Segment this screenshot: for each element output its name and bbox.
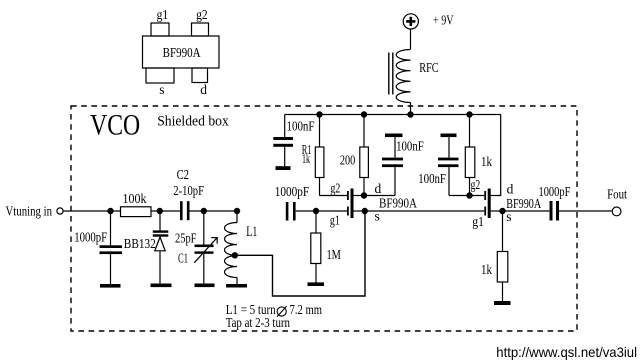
capacitor 1000pF (input shunt) (100, 211, 123, 284)
svg-text:RFC: RFC (419, 60, 438, 75)
svg-text:C1: C1 (178, 251, 188, 266)
svg-text:1k: 1k (481, 154, 492, 169)
node 100k/BB132 (157, 208, 163, 214)
resistor 200 (360, 115, 369, 196)
ground (T1 bypass, inverted) (385, 134, 403, 138)
node C2/C1 (201, 208, 207, 214)
node 1M/g1 (313, 208, 319, 214)
resistor 1M (311, 211, 321, 283)
ground (T2 g2 bypass, inverted) (441, 134, 457, 138)
ground (input 1000pF) (100, 284, 121, 288)
resistor 1k (T2 source) (497, 211, 508, 301)
wire RFC to rail (410, 103, 412, 115)
ground (L1) (226, 284, 247, 288)
node drain T1 (361, 192, 367, 198)
svg-text:BF990A: BF990A (163, 45, 201, 60)
RFC core line 1 (388, 53, 390, 95)
inductor RFC (396, 50, 410, 103)
shielded box dashed border (71, 106, 577, 331)
svg-text:Tap at 2-3 turn: Tap at 2-3 turn (226, 315, 291, 330)
wire supply to RFC (410, 29, 412, 49)
svg-text:s: s (375, 209, 380, 224)
capacitor 100nF (T1 drain bypass) (382, 137, 403, 195)
svg-text:25pF: 25pF (175, 231, 197, 246)
svg-text:7.2 mm: 7.2 mm (290, 302, 323, 317)
svg-text:http://www.qsl.net/va3iul: http://www.qsl.net/va3iul (496, 344, 637, 360)
capacitor 100nF (rail decoupling) (273, 115, 293, 167)
svg-text:100k: 100k (123, 191, 147, 206)
svg-text:BB132: BB132 (124, 236, 156, 251)
capacitor 1000pF (output series) (503, 201, 612, 221)
node input/1000pF (107, 208, 113, 214)
capacitor 100nF (T2 g2 bypass) (438, 137, 459, 195)
node source T2 (499, 208, 505, 214)
wire main line T1 source to T2 g1 (365, 210, 485, 212)
node g2 T2 (466, 192, 472, 198)
wire input (63, 210, 120, 212)
svg-text:+ 9V: + 9V (433, 12, 454, 27)
ground (T2 source 1k) (494, 301, 511, 305)
svg-text:Shielded box: Shielded box (157, 114, 229, 130)
resistor R1 1k (315, 115, 324, 196)
trimmer capacitor C1 25pF (194, 211, 217, 284)
svg-text:1000pF: 1000pF (539, 184, 571, 199)
svg-text:1k: 1k (302, 151, 310, 166)
svg-text:VCO: VCO (90, 110, 140, 142)
supply rail wire (285, 114, 501, 116)
transistor T1 BF990A (320, 189, 366, 219)
svg-text:1M: 1M (327, 247, 341, 262)
RFC core line 2 (392, 53, 394, 95)
svg-text:1000pF: 1000pF (74, 229, 107, 244)
node source T1 (362, 208, 368, 214)
svg-text:Vtuning in: Vtuning in (6, 203, 53, 218)
svg-text:100nF: 100nF (396, 139, 424, 154)
varactor BB132 (153, 211, 169, 284)
node tap of L1 (232, 252, 238, 258)
svg-text:BF990A: BF990A (379, 196, 417, 211)
package pin d (192, 68, 208, 83)
svg-text:d: d (375, 181, 382, 196)
ground (1M) (308, 282, 325, 286)
package pin g2 (192, 23, 209, 36)
ground (rail 100nF) (276, 166, 291, 170)
wire g2 node of T2 (449, 195, 484, 197)
svg-text:g2: g2 (471, 177, 481, 192)
supply terminal +9V (403, 14, 418, 29)
inductor L1 (224, 211, 237, 284)
capacitor 1000pF (series to T1 g1) (286, 202, 348, 221)
svg-text:g1: g1 (330, 213, 340, 228)
svg-text:g2: g2 (330, 181, 340, 196)
svg-text:1000pF: 1000pF (275, 184, 310, 199)
transistor T2 BF990A (484, 115, 502, 219)
package pin g1 (151, 23, 169, 36)
svg-text:s: s (506, 209, 511, 224)
package BF990A body (143, 36, 220, 68)
svg-text:s: s (159, 82, 164, 97)
diameter symbol (277, 306, 287, 316)
svg-text:g2: g2 (196, 7, 208, 22)
terminal Fout (612, 207, 621, 216)
node dot rail/1k (466, 111, 472, 117)
svg-text:d: d (507, 182, 514, 197)
resistor 100k (121, 207, 152, 217)
svg-text:BF990A: BF990A (506, 196, 541, 211)
svg-text:g1: g1 (472, 214, 484, 229)
capacitor C2 2-10pF series (180, 201, 237, 220)
svg-text:d: d (200, 82, 207, 97)
resistor 1k (T2 g2 bias) (465, 115, 475, 196)
package pin s (146, 68, 174, 83)
ground (C1) (195, 284, 215, 288)
svg-text:g1: g1 (157, 7, 169, 22)
svg-text:2-10pF: 2-10pF (173, 183, 204, 198)
node dot rail/RFC (407, 111, 413, 117)
wire 100k to C2 (151, 210, 180, 212)
node dot rail/200 (361, 111, 367, 117)
terminal Vtuning in (57, 208, 63, 214)
svg-text:Fout: Fout (607, 187, 627, 202)
svg-text:C2: C2 (177, 167, 189, 182)
svg-text:200: 200 (340, 152, 356, 167)
svg-text:L1: L1 (246, 224, 257, 240)
ground (BB132) (151, 284, 172, 288)
wire L1 tap feedback path (235, 211, 365, 296)
svg-text:100nF: 100nF (287, 119, 315, 134)
svg-text:100nF: 100nF (418, 171, 446, 186)
wire T1 drain to bypass cap (364, 195, 395, 197)
node dot rail/R1 (316, 111, 322, 117)
svg-text:1k: 1k (481, 262, 492, 277)
node line/L1 (234, 208, 240, 214)
